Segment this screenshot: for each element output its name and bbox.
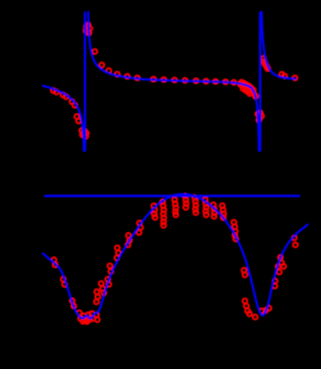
top panel curve: middle branch: [88, 12, 259, 151]
top panel curve: left branch: [43, 86, 84, 151]
bottom panel curve: [43, 194, 308, 318]
top panel asymptote 1: [84, 12, 86, 152]
top panel curve: right branch: [262, 12, 296, 79]
top panel data markers (red open circles): [51, 23, 298, 139]
top panel asymptote 2: [259, 12, 261, 152]
bottom panel data markers (red open circles): [52, 194, 298, 324]
bottom panel baseline: [44, 195, 300, 197]
